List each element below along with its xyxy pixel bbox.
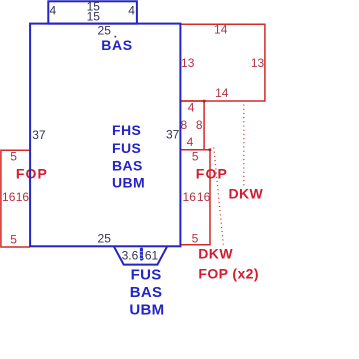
svg-text:14: 14 <box>214 23 228 37</box>
svg-text:FOP: FOP <box>196 165 228 181</box>
junction dot 4x8 rect top right <box>203 100 206 103</box>
top bay rect 15x4 <box>48 1 137 23</box>
svg-text:16: 16 <box>197 190 211 204</box>
svg-text:5: 5 <box>10 232 17 246</box>
svg-text:16: 16 <box>2 190 16 204</box>
svg-text:UBM: UBM <box>112 175 145 191</box>
bottom bay trapezoid <box>114 246 167 264</box>
svg-text:FOP: FOP <box>16 165 48 181</box>
svg-text:DKW: DKW <box>198 245 233 261</box>
red rect 4x8 (right side) <box>180 101 204 150</box>
svg-text:25: 25 <box>98 232 112 246</box>
svg-text:4: 4 <box>128 3 135 17</box>
svg-text:5: 5 <box>192 232 199 246</box>
left FOP rect 5x16 <box>1 150 30 247</box>
main basement rectangle BAS 25x37 <box>30 24 180 247</box>
svg-text:4: 4 <box>188 101 195 115</box>
svg-text:37: 37 <box>32 128 46 142</box>
svg-text:FUS: FUS <box>131 267 162 284</box>
svg-text:BAS: BAS <box>101 37 132 53</box>
svg-text:13: 13 <box>251 56 265 70</box>
svg-text:4: 4 <box>49 3 56 17</box>
svg-text:3.6: 3.6 <box>122 249 139 263</box>
red addition rect 14x13 (top right) <box>180 24 265 101</box>
svg-text:FUS: FUS <box>112 140 141 156</box>
svg-text:13: 13 <box>181 56 195 70</box>
dotted driveway line vertical <box>243 105 245 186</box>
svg-text:5: 5 <box>192 150 199 164</box>
svg-text:FOP (x2): FOP (x2) <box>198 265 259 281</box>
svg-text:14: 14 <box>215 86 229 100</box>
svg-text:5: 5 <box>10 150 17 164</box>
dotted driveway line slanted <box>214 148 224 245</box>
svg-text:DKW: DKW <box>229 185 264 201</box>
stacked vertical dim digits in trapezoid <box>140 248 143 261</box>
right FOP rect 5x16 <box>180 150 210 245</box>
svg-text:.61: .61 <box>142 249 159 263</box>
svg-text:FHS: FHS <box>112 122 141 138</box>
svg-text:8: 8 <box>181 118 188 132</box>
svg-text:16: 16 <box>16 190 30 204</box>
svg-text:BAS: BAS <box>130 284 163 301</box>
junction dot right FOP top right <box>209 148 212 151</box>
svg-text:BAS: BAS <box>112 157 143 173</box>
svg-text:UBM: UBM <box>129 301 164 318</box>
svg-text:15: 15 <box>87 10 101 24</box>
svg-text:25: 25 <box>98 24 112 38</box>
svg-text:8: 8 <box>196 118 203 132</box>
svg-text:37: 37 <box>166 128 180 142</box>
svg-text:16: 16 <box>183 190 197 204</box>
svg-text:4: 4 <box>187 135 194 149</box>
tiny dot after 25 <box>115 36 117 38</box>
